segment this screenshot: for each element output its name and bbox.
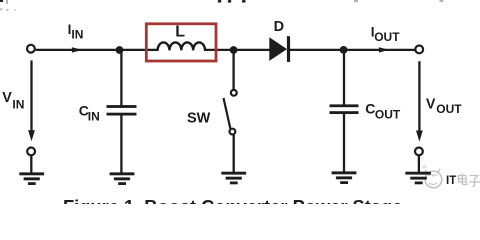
ground symbol left <box>19 172 44 185</box>
arrowhead IOUT current direction <box>379 47 389 52</box>
watermark logo circle <box>425 169 442 188</box>
arrowhead VIN polarity pointing down <box>28 130 35 141</box>
ground symbol CIN <box>110 172 135 185</box>
label VIN <box>2 90 24 111</box>
input terminal node (top left circle) <box>27 45 35 53</box>
svg-text:V: V <box>2 90 12 106</box>
wire: switch bottom contact to ground <box>233 135 235 173</box>
ground symbol SW <box>221 172 246 185</box>
capacitor CIN <box>107 105 137 115</box>
lower right terminal node (circle) <box>415 148 423 156</box>
wire: COUT branch from rail to capacitor top plate <box>343 50 345 105</box>
svg-text:SW: SW <box>187 111 211 127</box>
svg-text:OUT: OUT <box>374 30 400 44</box>
svg-text:OUT: OUT <box>375 107 401 121</box>
lower left terminal node (circle) <box>27 148 35 156</box>
svg-text:OUT: OUT <box>436 102 462 116</box>
watermark CJK glyph dian <box>459 174 467 185</box>
wire: top rail from inductor to diode anode <box>204 49 270 51</box>
watermark sparkle <box>423 165 426 169</box>
svg-text:IN: IN <box>12 97 24 111</box>
switch SW bottom contact <box>230 129 236 135</box>
watermark text IT electronics <box>446 175 456 187</box>
node junction: rail / switch <box>230 46 238 54</box>
node junction: input rail / CIN <box>116 46 124 54</box>
cropped text remnant top-right faint marks <box>354 0 443 2</box>
wire: stub from lower left terminal to ground <box>30 156 32 174</box>
svg-text:L: L <box>175 24 185 41</box>
wire: CIN branch from rail to capacitor top plate <box>120 50 122 106</box>
wire: top rail from input terminal to inductor <box>36 49 159 51</box>
wire: right branch vertical from output terminal down <box>418 61 420 134</box>
svg-text:V: V <box>426 97 436 113</box>
wire: switch branch from rail down to switch top contact <box>232 50 234 89</box>
watermark CJK glyph zi <box>469 176 480 187</box>
ground symbol output <box>405 172 431 185</box>
label VOUT <box>426 97 462 116</box>
svg-text:D: D <box>274 19 284 35</box>
label IIN <box>68 22 84 41</box>
output terminal node (top right circle) <box>415 46 423 54</box>
switch SW top contact <box>231 90 237 96</box>
arrowhead VOUT polarity pointing down <box>416 131 423 142</box>
svg-text:Figure 1. Boost Converter Powe: Figure 1. Boost Converter Power Stage <box>63 196 402 204</box>
label CIN <box>79 103 100 124</box>
cropped text remnant top-left corner <box>0 0 16 11</box>
node junction: rail / COUT <box>340 46 348 54</box>
red highlight box around inductor <box>146 24 216 61</box>
ground symbol COUT <box>332 171 357 184</box>
cropped text remnant top-middle dots <box>218 0 246 3</box>
label COUT <box>365 101 401 122</box>
svg-text:IN: IN <box>71 27 83 41</box>
inductor L coil <box>158 42 205 50</box>
arrowhead IIN current direction <box>72 47 83 52</box>
wire: COUT bottom plate to ground <box>343 114 345 173</box>
wire: top rail from diode cathode to output terminal <box>290 49 415 51</box>
svg-text:C: C <box>365 101 375 117</box>
wire: left branch vertical from input terminal down <box>30 60 32 133</box>
switch SW lever (open) <box>224 98 231 129</box>
capacitor COUT <box>330 104 359 114</box>
wire: stub from lower right terminal to ground <box>418 156 420 173</box>
svg-text:IT: IT <box>446 175 456 187</box>
wire: CIN bottom plate to ground <box>120 116 122 174</box>
svg-text:IN: IN <box>88 110 100 124</box>
label IOUT <box>371 24 401 44</box>
diode D <box>269 36 290 62</box>
